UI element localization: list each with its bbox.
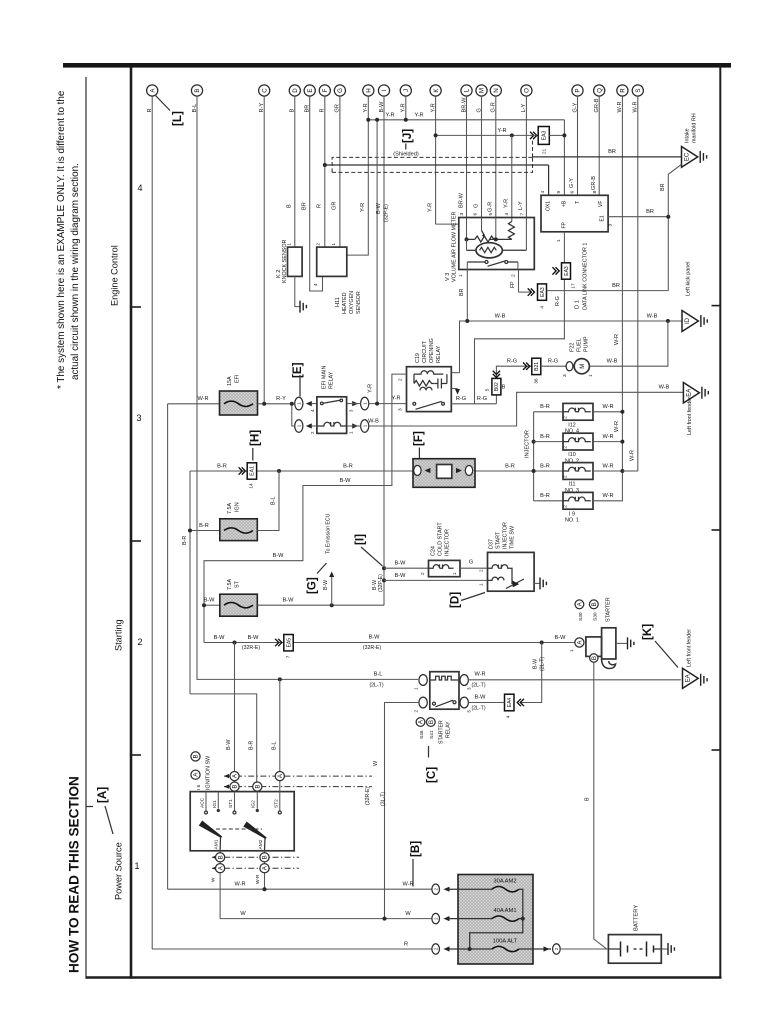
arrow into EFI relay left bottom (306, 423, 312, 428)
svg-text:ST: ST (235, 580, 241, 588)
svg-text:J: J (403, 89, 410, 92)
svg-text:B-R: B-R (343, 463, 353, 469)
B-R wire to IGN fuse (190, 530, 220, 532)
svg-text:RELAY: RELAY (436, 345, 442, 363)
svg-text:7: 7 (520, 213, 526, 216)
R-G wire C19 switch output (451, 403, 496, 405)
node W riser junction (383, 917, 387, 921)
svg-text:TIME SW: TIME SW (510, 525, 516, 549)
wire GR from terminal G to oxygen sensor (339, 96, 341, 247)
W-B wire fuel pump to ID wire (589, 321, 668, 366)
ignition bottom circle AM2 upper (260, 853, 269, 862)
leader for [F] (418, 448, 420, 459)
ECU terminal circle S (632, 85, 643, 96)
VAF fuel pump switch contact right (505, 261, 508, 264)
W-R wire relay coil to EA ground (468, 679, 681, 681)
leader for [I] (361, 547, 383, 566)
svg-text:2: 2 (554, 947, 559, 950)
svg-text:BR: BR (660, 183, 666, 191)
noise filter body (413, 459, 475, 488)
node VAF pin1 to ground line (465, 319, 469, 323)
svg-text:I12: I12 (568, 422, 576, 428)
node K to Y-R line (434, 133, 438, 137)
shield drain chevrons into EA3 (530, 132, 537, 139)
VAF switch left lead (467, 261, 485, 263)
ECU terminal circle H (363, 85, 374, 96)
svg-text:W-B: W-B (368, 418, 379, 424)
injector I12 body (563, 403, 593, 420)
svg-text:W-R: W-R (602, 493, 613, 499)
fusible link internal 40A out (519, 918, 523, 920)
svg-text:I10: I10 (568, 452, 576, 458)
leader for [J] (405, 144, 407, 150)
chevrons into B21 (523, 363, 530, 370)
right frame tick y=305 (712, 305, 721, 307)
wire B-L from terminal B (196, 96, 198, 679)
wire B-W from terminal I (383, 96, 385, 605)
svg-text:B-L: B-L (374, 672, 383, 678)
svg-text:M: M (479, 88, 486, 93)
svg-text:2: 2 (433, 947, 438, 950)
svg-text:(32P-E): (32P-E) (384, 204, 390, 222)
svg-text:2: 2 (420, 572, 425, 575)
R-G wire B21 to fuel pump (541, 365, 570, 367)
svg-text:W-R: W-R (614, 421, 620, 432)
svg-text:B-R: B-R (540, 493, 550, 499)
arrow into fusible link 2 (444, 916, 450, 921)
VAF pin3 lead to sensor oval (466, 239, 468, 250)
band rule tick y=541 (131, 540, 141, 542)
svg-text:HOW TO READ THIS SECTION: HOW TO READ THIS SECTION (67, 776, 82, 973)
svg-text:L-Y: L-Y (518, 201, 524, 210)
svg-text:5: 5 (488, 213, 494, 216)
wire Y-R from terminal H to oxygen sensor heater (347, 96, 369, 255)
svg-text:FUEL: FUEL (577, 338, 583, 352)
fusible link 100A ALT (492, 946, 519, 951)
node core to terminal F wire (323, 163, 327, 167)
svg-text:B-W: B-W (273, 553, 285, 559)
ignition terminal dash-dot row 2 (224, 786, 372, 788)
svg-text:IG1: IG1 (212, 800, 218, 808)
leader for [A] (105, 806, 113, 834)
starter relay pin 2 (419, 697, 427, 708)
VAF pin2 wire to EA3 (518, 270, 520, 293)
svg-text:EFI: EFI (235, 375, 241, 383)
VAF wiper arrow (482, 231, 485, 236)
B-R wire to injector I12 (534, 411, 563, 413)
svg-text:2: 2 (563, 446, 568, 449)
VAF oval right lead (502, 249, 526, 251)
R-Y wire EFI fuse to relay (258, 403, 294, 405)
tick on thin rule (86, 806, 93, 808)
svg-text:Y-R: Y-R (385, 113, 394, 119)
chevrons into EA3 (FP) (552, 267, 559, 274)
VAF pin6 lead (wiper) (481, 218, 483, 231)
node VAF pin4 riser junction (510, 133, 514, 137)
injector I12 coil symbol (563, 408, 591, 412)
starter relay pin 5 (460, 697, 468, 708)
B-L wire IGN fuse output riser (257, 471, 279, 531)
ignition contact circles (205, 811, 208, 814)
svg-text:1: 1 (362, 424, 367, 427)
wire W-R from terminal R (injector bus) (621, 96, 623, 501)
W wire battery feed to relay contact (385, 703, 419, 919)
wire R from terminal F to oxygen sensor (324, 96, 326, 247)
fuel pump motor circle (574, 359, 589, 374)
svg-text:1: 1 (287, 243, 292, 246)
svg-text:Power Source: Power Source (114, 842, 124, 900)
wire W-R from terminal S (637, 96, 639, 471)
W-B wire relay to EA ground (368, 392, 683, 426)
svg-text:B-W: B-W (369, 635, 381, 641)
svg-text:EA3: EA3 (564, 266, 570, 276)
svg-text:B: B (262, 855, 269, 859)
svg-text:B-W: B-W (372, 580, 378, 590)
node EA3 output junction (562, 133, 566, 137)
W-R wire from injector I12 (593, 411, 622, 413)
shield dashed top (332, 157, 532, 172)
W-B ground wire to ID triangle (460, 321, 683, 373)
svg-text:EA3: EA3 (540, 287, 546, 297)
injector I11 body (563, 463, 593, 480)
svg-text:B21: B21 (534, 362, 540, 371)
chevrons into B02 (493, 371, 500, 378)
svg-text:1: 1 (588, 374, 594, 377)
svg-text:W-R: W-R (614, 334, 620, 345)
fusible link box (458, 875, 533, 965)
battery ground stub (661, 948, 668, 950)
svg-text:4: 4 (540, 306, 545, 309)
Y-R wire relay to C19 (368, 403, 406, 405)
svg-text:B-L: B-L (271, 497, 277, 505)
svg-text:Left front fender: Left front fender (687, 629, 693, 667)
svg-text:B: B (193, 754, 200, 758)
VAF pot right lead (489, 238, 512, 240)
node VAF pin3 to pot (465, 237, 469, 241)
svg-text:W-R: W-R (197, 396, 208, 402)
starter relay pin 1 (419, 675, 427, 686)
ignition connector id a (191, 770, 200, 779)
ground symbol at EC (700, 151, 706, 163)
svg-text:I 9: I 9 (569, 511, 575, 517)
wire G from terminal M (481, 96, 483, 217)
svg-text:I11: I11 (568, 482, 575, 488)
VAF pin1 BR wire down (466, 270, 468, 322)
wire BR from terminal E to H11 pin 4 (310, 96, 323, 291)
svg-text:START: START (496, 531, 502, 549)
svg-text:2: 2 (433, 917, 438, 920)
starter solenoid box (586, 637, 602, 657)
svg-text:AM2: AM2 (258, 839, 264, 849)
W-R wire from injector I11 (593, 470, 622, 472)
svg-text:W-R: W-R (402, 882, 413, 888)
svg-text:INJECTOR: INJECTOR (445, 529, 451, 556)
injector I11 coil symbol (563, 467, 591, 471)
ground triangle EC (682, 147, 698, 168)
svg-text:RELAY: RELAY (446, 721, 452, 738)
svg-text:4: 4 (137, 183, 142, 193)
svg-text:B-W: B-W (395, 573, 407, 579)
svg-text:8: 8 (592, 191, 598, 194)
EFI relay switch blade (323, 400, 340, 403)
B-W wire to cold start injector (384, 567, 429, 569)
node VAF pin5 to pot (494, 237, 498, 241)
svg-text:W-R: W-R (602, 463, 613, 469)
svg-text:1: 1 (458, 274, 464, 277)
ignition internal stubs (206, 792, 280, 811)
svg-text:DATA LINK CONNECTOR 1: DATA LINK CONNECTOR 1 (583, 243, 589, 310)
svg-text:EA: EA (686, 674, 692, 682)
svg-text:7.5A: 7.5A (227, 503, 233, 514)
W-R wire AM2 to fusible link (168, 888, 432, 890)
svg-text:1: 1 (296, 402, 301, 405)
ignition lever link dashed (216, 828, 262, 830)
node terminal C wire to R-Y (262, 402, 266, 406)
svg-text:30A AM2: 30A AM2 (493, 879, 516, 885)
svg-text:[L]: [L] (171, 111, 184, 126)
svg-text:R-G: R-G (555, 296, 561, 306)
svg-text:INJECTOR: INJECTOR (525, 430, 531, 458)
injector I 9 coil symbol (563, 497, 591, 501)
ignition bottom circle AM1 upper (216, 853, 225, 862)
svg-text:W: W (405, 911, 411, 917)
svg-text:[I]: [I] (354, 534, 367, 545)
leader for [B] (412, 859, 414, 887)
ignition bottom circle AM2 lower (260, 864, 269, 873)
svg-text:I 6: I 6 (196, 784, 202, 790)
ECU terminal circle O (521, 85, 532, 96)
svg-text:B: B (287, 204, 293, 208)
chevrons into EA5 (275, 639, 282, 646)
svg-text:FP: FP (510, 281, 516, 288)
svg-text:K 2: K 2 (276, 270, 282, 278)
C19 capacitor (435, 379, 447, 389)
battery body (608, 935, 661, 964)
terminal K wire into VAF left pin (436, 223, 459, 225)
VAF pin7 lead down (525, 249, 527, 251)
arrow into noise filter left (424, 468, 430, 473)
arrow on bottom dash-dot row 1 (212, 855, 217, 859)
D37 bimetal diode arrow (513, 581, 520, 588)
svg-text:B-W: B-W (283, 598, 295, 604)
starter solenoid terminal circle (575, 638, 584, 647)
svg-text:S41: S41 (429, 730, 435, 739)
svg-text:G: G (473, 204, 479, 208)
svg-text:D 1: D 1 (575, 300, 581, 309)
svg-text:4: 4 (313, 283, 318, 286)
node fuel pump W-B to ground line (666, 319, 670, 323)
svg-text:Y-R: Y-R (367, 384, 373, 393)
svg-text:R-G: R-G (507, 359, 517, 365)
VAF potentiometer zigzag (475, 236, 494, 242)
svg-text:* The system shown here is an: * The system shown here is an EXAMPLE ON… (56, 90, 67, 389)
ECU terminal circle B (191, 85, 202, 96)
B-W drop to EA4 (521, 643, 541, 703)
leader for [L] (156, 96, 171, 111)
wire GR-B from terminal Q (598, 96, 600, 195)
svg-text:OX1: OX1 (546, 201, 552, 211)
ECU terminal circle G (334, 85, 345, 96)
node D37 branch on I wire (382, 578, 386, 582)
W-R wire from injector I 9 (593, 500, 622, 502)
fusible link terminal 1 (432, 884, 440, 894)
svg-text:BR-W: BR-W (458, 192, 464, 208)
svg-text:1: 1 (452, 572, 457, 575)
EFI relay pin oval 1 (295, 397, 303, 410)
svg-text:2: 2 (563, 475, 568, 478)
svg-text:1: 1 (134, 861, 139, 871)
ECU terminal circle F (319, 85, 330, 96)
ignition contact dots (217, 809, 220, 812)
ECU terminal circle J (400, 85, 411, 96)
node emission ECU branch (330, 603, 334, 607)
svg-text:IGNITION SW: IGNITION SW (206, 755, 212, 790)
svg-text:Y-R: Y-R (391, 396, 400, 402)
VAF fuel pump switch blade (488, 261, 506, 266)
svg-text:100A ALT: 100A ALT (493, 939, 518, 945)
W-R wire from fusible link to EFI fuse (168, 403, 220, 405)
heated oxygen sensor H11 body (317, 247, 347, 276)
svg-text:B-L: B-L (271, 742, 277, 750)
VAF pin2 wire right (519, 291, 532, 293)
svg-text:B-R: B-R (540, 434, 550, 440)
DLC FP R-G wire down (475, 232, 565, 404)
svg-text:EA1: EA1 (250, 466, 256, 476)
arrow into battery terminal (544, 946, 550, 951)
svg-text:OXYGEN: OXYGEN (349, 291, 355, 314)
ECU terminal circle D (289, 85, 300, 96)
D37 switch blade (506, 579, 524, 589)
starter relay connector id b (426, 718, 435, 727)
R-G wire up through B02 (496, 366, 531, 404)
right frame rule (bottom of landscape) (719, 65, 721, 979)
leader for [K] (655, 641, 678, 668)
C19 body ground stub to ID wire (451, 372, 459, 374)
svg-text:[K]: [K] (641, 624, 654, 640)
starter relay connector id a (416, 718, 425, 727)
BR wire shield drain to EC ground (533, 156, 682, 158)
junction connector EA3 (FP) (562, 263, 576, 289)
svg-text:[H]: [H] (249, 430, 262, 446)
svg-text:5: 5 (485, 388, 490, 391)
svg-text:W-R: W-R (255, 874, 261, 884)
C24 coil symbol (429, 564, 454, 568)
svg-text:BR: BR (646, 209, 654, 215)
leader for [H] (252, 448, 254, 461)
ECU terminal circle E (304, 85, 315, 96)
svg-text:B: B (217, 855, 224, 859)
C19 right-mid stub (451, 388, 457, 390)
svg-text:EA: EA (687, 389, 693, 397)
svg-text:F22: F22 (570, 343, 576, 352)
svg-text:B-W: B-W (340, 478, 352, 484)
svg-text:I: I (381, 89, 388, 91)
battery cell dashes (634, 948, 643, 950)
ECU terminal circle I (378, 85, 389, 96)
40A AM1 lead (450, 918, 493, 920)
ignition bottom dash-dot row 1 (212, 856, 299, 858)
svg-text:R: R (404, 941, 408, 947)
VAF sensing element oval (476, 243, 502, 258)
bottom frame rule (86, 976, 722, 979)
svg-text:B: B (428, 720, 435, 724)
node R-Y branch (290, 402, 294, 406)
Y-R bus wire (368, 119, 564, 121)
svg-text:Engine Control: Engine Control (110, 245, 120, 306)
svg-text:EA3: EA3 (542, 131, 548, 141)
VAF pin1 lead inside (466, 262, 468, 270)
ground symbol at EA (relay) (702, 387, 708, 399)
svg-text:Q: Q (596, 88, 603, 93)
ground symbol at K2 (300, 301, 306, 313)
svg-text:1: 1 (556, 239, 562, 242)
svg-text:B-W: B-W (204, 598, 216, 604)
B-R wire to injector I 9 (534, 500, 563, 502)
node ALT branch (468, 947, 472, 951)
svg-text:1: 1 (331, 243, 336, 246)
node injector row1 to R bus (620, 410, 624, 414)
wire R-Y from terminal C (263, 96, 265, 404)
left thin rule (85, 77, 87, 979)
svg-text:[C]: [C] (425, 767, 438, 783)
starter relay switch contacts (433, 702, 436, 705)
svg-text:Left kick panel: Left kick panel (686, 262, 692, 296)
svg-text:W-R: W-R (629, 450, 635, 461)
svg-text:[J]: [J] (401, 129, 414, 143)
svg-text:To Emission ECU: To Emission ECU (325, 513, 331, 554)
ground triangle EA (starter relay) (683, 668, 699, 688)
EFI relay pin oval 3 (out) (361, 397, 369, 410)
svg-text:EA5: EA5 (286, 638, 292, 648)
wire R from terminal A (151, 96, 153, 949)
leader for [E] (299, 375, 301, 397)
right frame tick y=530 (712, 529, 721, 531)
wire G-R from terminal N (495, 96, 497, 217)
EFI relay coil (317, 422, 348, 426)
svg-text:G-Y: G-Y (569, 178, 575, 188)
svg-text:FP: FP (561, 221, 567, 228)
15A EFI fuse element (224, 401, 253, 406)
svg-text:14: 14 (249, 483, 254, 489)
arrow below C19 stub (455, 389, 460, 395)
svg-text:L: L (464, 88, 471, 92)
svg-text:F: F (322, 88, 329, 92)
node injector row3 to R bus (620, 469, 624, 473)
svg-text:W: W (210, 877, 216, 882)
svg-text:ACC: ACC (200, 797, 206, 808)
svg-text:B-R: B-R (540, 404, 550, 410)
svg-text:[D]: [D] (449, 592, 462, 608)
node AM2 wire to W-R line (263, 887, 267, 891)
ignition terminal dash-dot row 1 (224, 775, 372, 777)
ignition lever AM2 (243, 822, 266, 840)
node IGN fuse riser junction (277, 469, 281, 473)
fusible link terminal 3 (432, 944, 440, 954)
svg-text:S46: S46 (419, 730, 425, 739)
svg-text:N: N (493, 88, 500, 92)
VAF pin3 lead (466, 218, 468, 240)
svg-text:AM1: AM1 (214, 839, 220, 849)
svg-text:2: 2 (563, 505, 568, 508)
svg-text:B-W: B-W (323, 580, 329, 590)
svg-text:2: 2 (414, 710, 419, 713)
svg-text:[G]: [G] (306, 577, 319, 594)
svg-text:D37: D37 (489, 539, 495, 549)
svg-text:STARTER: STARTER (606, 597, 612, 622)
svg-text:OPENING: OPENING (429, 338, 435, 363)
svg-text:W: W (240, 911, 246, 917)
svg-text:B-R: B-R (217, 463, 227, 469)
